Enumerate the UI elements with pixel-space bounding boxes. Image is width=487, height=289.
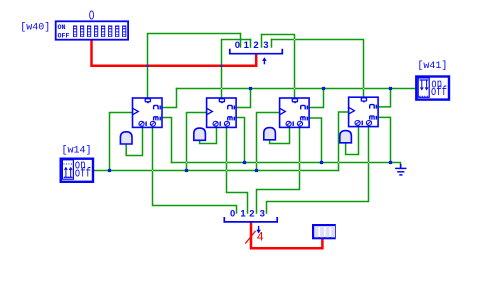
- svg-text:3: 3: [260, 209, 265, 220]
- switch w41: [416, 77, 449, 100]
- node Q dot FF3: [322, 87, 325, 90]
- node reset dot FF4: [389, 161, 392, 164]
- bus DIP to top splitter: [92, 40, 257, 65]
- wire splitter-bit0 to FF1 top: [148, 34, 241, 98]
- wire FF4 Q riser: [378, 89, 391, 107]
- wire FF1 Q riser: [162, 89, 177, 108]
- wire FF4 lower pin drop: [378, 117, 391, 162]
- node reset dot FF2: [243, 161, 246, 164]
- svg-text:0: 0: [89, 9, 94, 22]
- wire splitter-bit1 to FF2 top: [222, 40, 251, 98]
- node reset dot FF3: [320, 161, 323, 164]
- bus-wire crossing marker A: [146, 65, 148, 67]
- wire clock riser FF2: [187, 113, 207, 171]
- wire clock riser FF1: [110, 113, 133, 171]
- svg-text:[w40]: [w40]: [20, 21, 50, 33]
- node clock dot FF3: [255, 169, 258, 172]
- svg-text:1: 1: [244, 40, 250, 51]
- wire gate2 stem: [200, 127, 217, 144]
- arrow up: [263, 60, 265, 64]
- wire splitter-bit3 stub: [271, 40, 273, 48]
- wire FF1 bit0 to bottom splitter: [153, 127, 237, 214]
- node clock dot FF2: [185, 169, 188, 172]
- svg-text:1: 1: [240, 209, 246, 220]
- svg-text:off: off: [75, 167, 91, 181]
- wire clock riser FF4: [339, 112, 349, 171]
- svg-text:0: 0: [235, 40, 240, 51]
- bus bottom splitter to display: [251, 223, 322, 249]
- wire gate1 stem: [126, 127, 142, 156]
- svg-text:[w41]: [w41]: [417, 60, 447, 72]
- flip-flop U2: [207, 98, 237, 127]
- wire clock riser FF3: [257, 113, 280, 171]
- bus width slash 4: [245, 231, 255, 244]
- wire splitter-bit1 stub: [250, 40, 252, 48]
- gate G1: [120, 132, 132, 144]
- splitter top: [230, 40, 282, 64]
- svg-text:ON: ON: [58, 24, 66, 32]
- wire FF3 bit2 to bottom splitter: [257, 127, 300, 214]
- display D1: [313, 225, 335, 238]
- flip-flop U1: [133, 98, 163, 127]
- wire splitter-bit3 to FF4 top: [272, 40, 364, 97]
- svg-text:[w14]: [w14]: [62, 144, 92, 156]
- gate G2: [194, 128, 206, 140]
- node Q dot FF2: [249, 87, 252, 90]
- svg-text:3: 3: [263, 40, 268, 51]
- wire FF2 bit1 to bottom splitter: [227, 127, 248, 214]
- wire splitter-bit2 stub: [261, 35, 263, 48]
- wire FF3 Q riser: [309, 89, 324, 108]
- wire Q-bus horizontal to w41: [177, 88, 416, 90]
- wire FF4 bit3 to bottom splitter: [267, 126, 369, 213]
- node clock dot w14: [108, 169, 111, 172]
- gate G4: [340, 131, 352, 143]
- wire crossing gaps: [152, 39, 369, 171]
- wire splitter-bit0 stub: [240, 34, 242, 48]
- splitter bottom: [224, 209, 277, 234]
- wire FF2 lower pin drop: [236, 118, 245, 163]
- svg-text:2: 2: [249, 209, 254, 220]
- DIP switch w40: [56, 21, 128, 40]
- wire reset line to ground: [172, 163, 401, 168]
- wire FF1 lower pin drop: [162, 118, 172, 163]
- wire clock line from w14: [94, 170, 339, 172]
- node Q dot FF4: [389, 87, 392, 90]
- wire gate3 stem: [270, 127, 290, 144]
- gate G3: [264, 128, 276, 140]
- wire gate4 stem: [346, 126, 359, 155]
- switch w14: [61, 159, 93, 182]
- svg-text:0: 0: [230, 209, 235, 220]
- bus-wire crossing marker B: [220, 65, 222, 67]
- svg-text:off: off: [431, 86, 447, 100]
- ground: [395, 164, 406, 175]
- flip-flop U4: [349, 97, 379, 126]
- wire FF3 lower pin drop: [309, 118, 322, 163]
- flip-flop U3: [280, 98, 310, 127]
- wire splitter-bit2 to FF3 top: [262, 35, 295, 98]
- arrow down: [258, 226, 260, 230]
- svg-text:2: 2: [253, 40, 258, 51]
- junction dots: [108, 87, 392, 172]
- wire FF2 Q riser: [236, 89, 251, 108]
- svg-text:OFF: OFF: [58, 32, 70, 40]
- svg-text:4: 4: [257, 230, 264, 244]
